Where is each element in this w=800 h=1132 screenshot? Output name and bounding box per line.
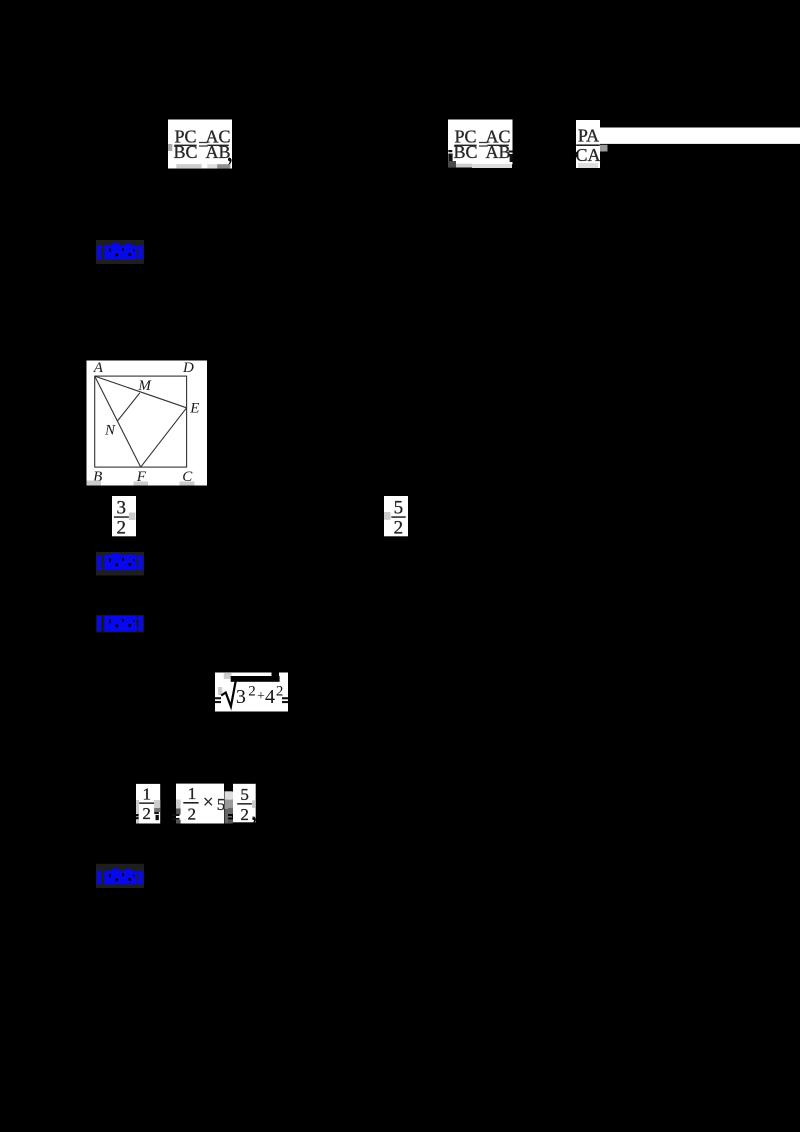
svg-text:BC: BC: [173, 142, 197, 162]
blue label blob 3 (solution tag): [96, 615, 144, 633]
svg-text:2: 2: [276, 684, 284, 700]
line E-F: [141, 408, 187, 467]
line A-F: [95, 376, 141, 467]
sqrt formula image: =sqrt(3^2+4^2)=: [215, 672, 288, 711]
formula image 1: PC/BC = AC/AB,: [168, 120, 232, 169]
gray artifact left of radical: [218, 687, 222, 695]
svg-text:×: ×: [203, 792, 214, 813]
cut glyph fragment right of box 1: [154, 812, 159, 814]
gray artifact top-left: [224, 673, 232, 679]
right = fragment: [282, 697, 288, 699]
svg-text:D: D: [182, 360, 194, 376]
svg-text:5: 5: [394, 498, 404, 519]
svg-text:4: 4: [265, 686, 275, 708]
formula image 2: PC/BC = AC/AB with cut glyph fragments: [448, 120, 513, 169]
row box 3: 5/2 with comma: [228, 784, 256, 825]
left gray column artifacts: [228, 792, 233, 800]
svg-text:3: 3: [117, 498, 127, 519]
geometry figure image: square ABCD with E,F,M,N: [87, 360, 208, 486]
svg-text:1: 1: [188, 784, 197, 803]
svg-text:A: A: [93, 360, 104, 376]
svg-text:AB: AB: [485, 142, 510, 162]
vertex labels: [93, 360, 200, 485]
line A-E: [95, 376, 187, 408]
fraction image 3/2: [112, 496, 136, 539]
svg-text:AB: AB: [205, 142, 230, 162]
svg-text:2: 2: [394, 518, 404, 539]
svg-text:2: 2: [142, 804, 151, 823]
svg-text:5: 5: [240, 785, 249, 804]
svg-text:1: 1: [143, 785, 152, 804]
row box 2: 1/2 x 5: [172, 784, 232, 824]
svg-text:PA: PA: [578, 125, 599, 145]
row box 1: 1/2: [136, 784, 160, 824]
svg-text:M: M: [137, 378, 152, 394]
svg-text:3: 3: [236, 686, 246, 708]
radical glyph: [221, 681, 236, 707]
svg-text:CA: CA: [575, 145, 600, 165]
equals fragment on left edge of box 2: [172, 814, 180, 816]
svg-text:2: 2: [248, 684, 256, 700]
equals fragment on left edge of box 1: [136, 814, 139, 816]
svg-text:2: 2: [117, 518, 127, 539]
cut glyph fragment bottom-right: [509, 151, 513, 153]
formula image 3: = PA/CA with wide white band: [575, 120, 800, 168]
equals sign between box 2 and box 3: [228, 814, 237, 819]
blue label blob 2 (analysis tag): [96, 552, 144, 576]
comma: [252, 817, 256, 825]
left = fragment: [215, 697, 221, 699]
bottom gray artifacts: [87, 481, 195, 486]
svg-text:5: 5: [217, 795, 226, 814]
fraction image 5/2: [384, 496, 408, 539]
svg-text:N: N: [104, 423, 116, 439]
svg-text:BC: BC: [453, 142, 477, 162]
blue label blob 1 (answer tag): [96, 240, 144, 264]
svg-text:E: E: [189, 401, 199, 417]
svg-text:2: 2: [240, 805, 249, 824]
blue label blob 4 (remark tag): [96, 864, 144, 888]
black band over radical: [231, 676, 280, 682]
gray strip right of box 2: [225, 791, 233, 799]
cut glyph fragment bottom-left: [448, 150, 452, 152]
svg-text:2: 2: [188, 805, 197, 824]
square ABCD: [95, 376, 187, 467]
svg-text:+: +: [257, 689, 265, 704]
line M-N: [118, 393, 140, 421]
